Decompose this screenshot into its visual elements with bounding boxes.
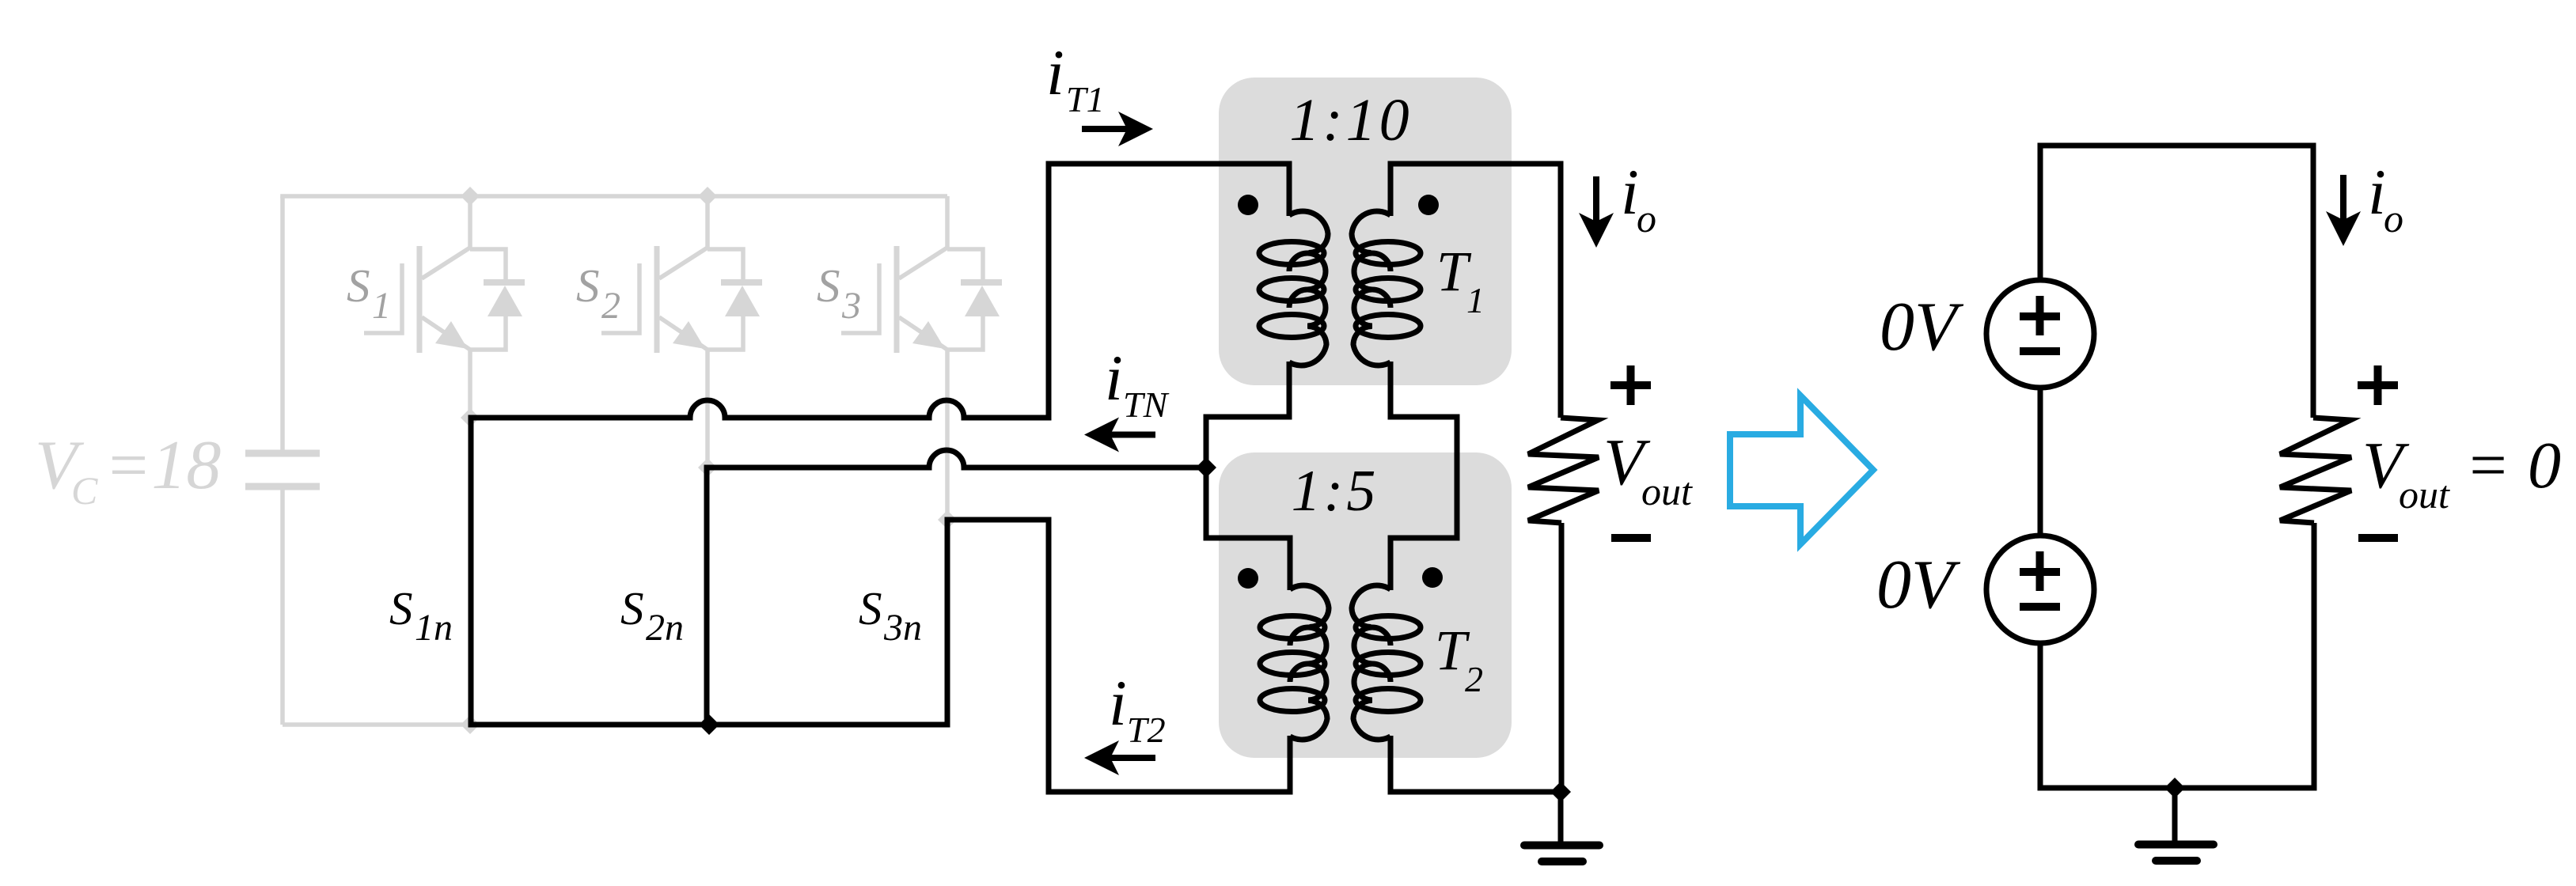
T1 primary dot xyxy=(1238,195,1258,215)
svg-text:S: S xyxy=(859,582,882,634)
wire T2 secondary bottom to ground node xyxy=(1388,789,1561,795)
svg-text:2: 2 xyxy=(601,285,620,327)
label - (left) xyxy=(1611,534,1651,542)
gray node S1 emitter xyxy=(461,408,480,427)
svg-text:1n: 1n xyxy=(415,607,453,649)
svg-text:i: i xyxy=(1105,342,1123,414)
capacitor VC (gray, VC=18) xyxy=(280,196,285,450)
ground (right circuit) xyxy=(2138,788,2214,861)
implication arrow (cyan) xyxy=(1730,396,1873,544)
svg-text:S: S xyxy=(389,582,413,634)
svg-text:out: out xyxy=(1641,469,1693,513)
svg-text:S: S xyxy=(576,259,600,312)
wire left bottom (right circuit) xyxy=(2038,642,2043,788)
svg-text:TN: TN xyxy=(1123,384,1170,425)
wire iT2 path: S3n node to T2 primary bottom xyxy=(945,520,1293,792)
svg-text:3: 3 xyxy=(841,285,861,327)
transistor S1 (IGBT, gray) xyxy=(364,196,525,418)
resistor Vout=0 (right circuit) xyxy=(2280,418,2351,523)
gray node S2 emitter xyxy=(698,458,717,477)
gray node bottom return xyxy=(461,715,480,734)
source V2 (0V) xyxy=(1986,536,2094,643)
label + (right) xyxy=(2358,381,2398,389)
svg-text:1: 1 xyxy=(372,285,391,327)
wire T1 primary bottom to neutral node xyxy=(1206,417,1292,468)
wire between sources xyxy=(2038,386,2043,537)
wire S3n (switch S3n closed) xyxy=(945,520,950,725)
wire gray dc bus xyxy=(280,194,947,199)
transistor S2 (IGBT, gray) xyxy=(601,196,762,468)
wire left top (right circuit) xyxy=(2038,146,2043,282)
inductor T2 secondary winding xyxy=(1352,538,1421,792)
wire T1 secondary top to output xyxy=(1388,164,1561,418)
wire iTN: S2n node to neutral junction (hops over S3) xyxy=(707,450,1206,468)
wire resistor bottom (right circuit) xyxy=(2312,523,2317,788)
svg-text:S: S xyxy=(347,259,370,312)
svg-text:S: S xyxy=(817,259,840,312)
current arrow io (left) xyxy=(1579,176,1614,248)
T2 primary dot xyxy=(1238,568,1258,589)
wire gray bottom return xyxy=(283,722,473,727)
wire bottom bus xyxy=(469,722,950,728)
wire right top (right circuit) xyxy=(2311,146,2316,418)
svg-text:1:10: 1:10 xyxy=(1289,87,1412,153)
gray node bus-S2 xyxy=(698,187,717,206)
transformer T1 shaded box xyxy=(1219,78,1512,385)
svg-text:1:5: 1:5 xyxy=(1292,459,1379,524)
wire neutral node to T2 primary top xyxy=(1206,468,1293,538)
svg-text:i: i xyxy=(1109,667,1127,739)
svg-text:S: S xyxy=(620,582,644,634)
wire S2n (switch S2n closed) xyxy=(704,465,710,725)
resistor Vout (load) xyxy=(1528,418,1599,523)
node neutral junction (iTN) xyxy=(1196,457,1216,478)
wire T1 secondary bottom to T2 secondary top xyxy=(1388,417,1458,538)
gray node bus-S1 xyxy=(461,187,480,206)
svg-text:2n: 2n xyxy=(646,607,684,649)
svg-text:0V: 0V xyxy=(1880,289,1964,365)
wire bottom (right circuit) xyxy=(2038,786,2317,791)
inductor T1 secondary winding xyxy=(1352,164,1421,417)
svg-text:out: out xyxy=(2399,472,2450,517)
inductor T1 primary winding xyxy=(1259,164,1328,417)
svg-text:o: o xyxy=(1637,196,1656,240)
wire top (right circuit) xyxy=(2038,143,2316,149)
svg-text:=: = xyxy=(2465,429,2510,502)
svg-text:0V: 0V xyxy=(1876,547,1961,623)
transformer T2 shaded box xyxy=(1219,452,1512,758)
svg-text:3n: 3n xyxy=(883,607,922,649)
current arrow iTN xyxy=(1084,418,1155,452)
svg-text:1: 1 xyxy=(1466,280,1485,320)
T1 secondary dot xyxy=(1418,195,1439,215)
svg-text:0: 0 xyxy=(2528,429,2561,502)
node S2n-bottom junction xyxy=(699,714,719,735)
svg-text:T1: T1 xyxy=(1066,79,1105,119)
label - (right) xyxy=(2358,534,2398,542)
svg-text:C: C xyxy=(71,468,98,513)
wire iT1 path: S1n node to T1 primary top (hops over S2,S3) xyxy=(471,164,1292,418)
wire resistor bottom to ground node xyxy=(1559,523,1565,792)
svg-text:i: i xyxy=(1046,36,1064,108)
node ground junction (right circuit) xyxy=(2164,778,2185,798)
current arrow io (right) xyxy=(2326,175,2361,246)
current arrow iT2 xyxy=(1084,740,1155,775)
gray node S3 emitter xyxy=(938,510,957,529)
svg-text:T2: T2 xyxy=(1127,710,1166,750)
svg-text:2: 2 xyxy=(1465,659,1483,699)
label + (left) xyxy=(1610,381,1651,389)
T2 secondary dot xyxy=(1422,567,1443,588)
inductor T2 primary winding xyxy=(1260,538,1329,792)
svg-text:=18: =18 xyxy=(104,427,221,504)
source V1 (0V) xyxy=(1986,280,2094,388)
svg-text:o: o xyxy=(2384,196,2403,240)
current arrow iT1 xyxy=(1082,112,1153,146)
node output ground junction xyxy=(1550,782,1571,802)
transistor S3 (IGBT, gray) xyxy=(841,196,1002,520)
ground (left circuit) xyxy=(1524,792,1599,861)
wire S1n (switch S1n closed) xyxy=(469,415,474,725)
